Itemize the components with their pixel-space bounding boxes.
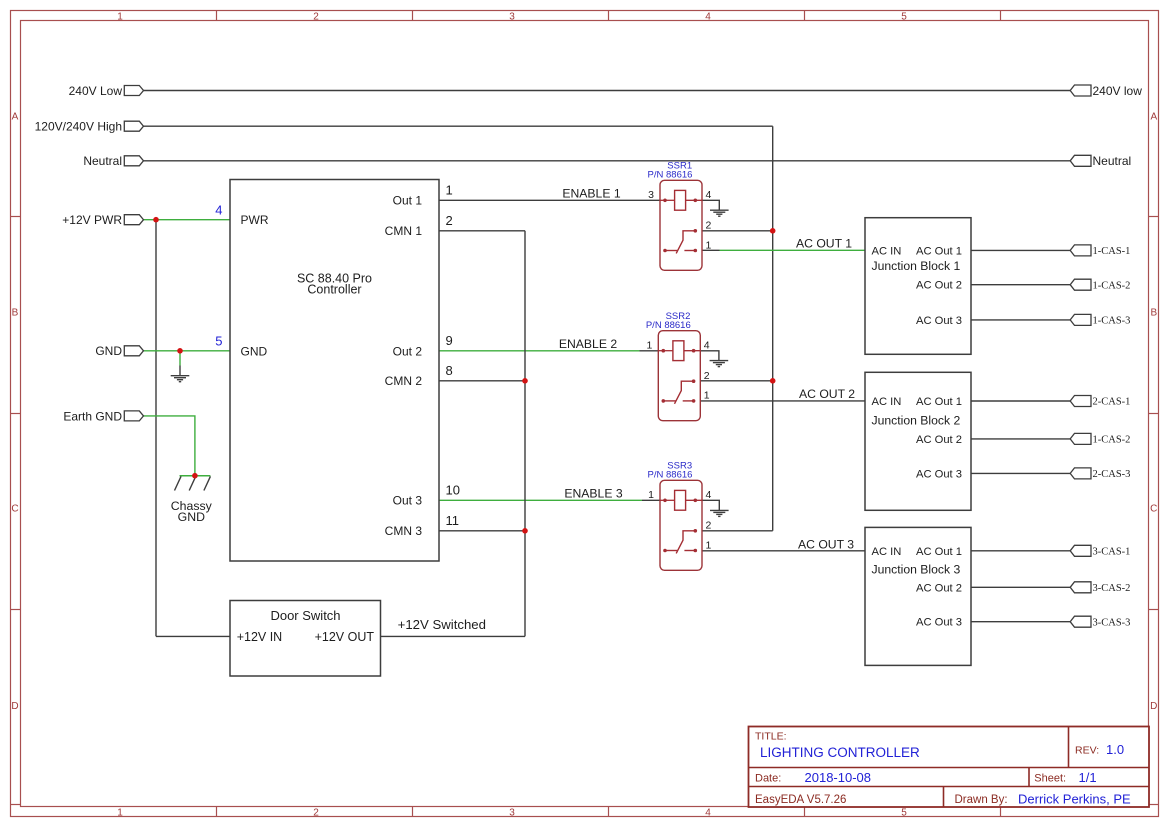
port Neutral (output flag): [1070, 154, 1131, 168]
svg-text:AC Out 1: AC Out 1: [916, 245, 962, 257]
svg-text:2-CAS-1: 2-CAS-1: [1093, 397, 1131, 408]
wire SSR3 pin 2 to high line: [702, 530, 773, 532]
svg-text:Out 1: Out 1: [393, 194, 423, 208]
svg-text:CMN 2: CMN 2: [385, 374, 423, 388]
wire SSR3 pin 4 to ground: [702, 500, 719, 510]
wire AC OUT 2 SSR2 to junction block 2: [700, 400, 865, 402]
svg-text:1: 1: [117, 11, 123, 22]
port 1-CAS-3 (output flag): [1070, 314, 1130, 326]
wire GND stub to ground symbol (dark part): [179, 366, 181, 376]
junction block 2 box: [865, 372, 971, 510]
wire +12V PWR (green) port to controller PWR pin: [144, 219, 231, 221]
svg-text:1: 1: [117, 807, 123, 818]
svg-text:2: 2: [704, 370, 710, 382]
wire CMN 3 from controller: [439, 530, 525, 532]
wire junction block 1 AC Out 2 to port: [971, 284, 1070, 286]
svg-text:1: 1: [706, 539, 712, 551]
svg-text:240V low: 240V low: [1093, 84, 1143, 98]
port Neutral (input flag): [83, 154, 143, 168]
svg-text:AC Out 3: AC Out 3: [916, 315, 962, 327]
wire Neutral net: [144, 160, 1071, 162]
wire SSR2 pin 2 to high line: [700, 380, 772, 382]
port +12V PWR (input flag): [62, 213, 143, 227]
svg-text:AC Out 2: AC Out 2: [916, 280, 962, 292]
svg-text:2018-10-08: 2018-10-08: [805, 770, 872, 785]
wire SSR2 pin 4 to ground: [700, 351, 719, 361]
svg-text:3: 3: [648, 189, 654, 201]
svg-text:1: 1: [706, 239, 712, 251]
port 240V low (output flag): [1070, 84, 1142, 98]
wire 240V Low net (left port to right port): [144, 90, 1071, 92]
svg-text:11: 11: [446, 513, 460, 528]
wire junction block 3 AC Out 1 to port: [971, 550, 1070, 552]
svg-text:EasyEDA V5.7.26: EasyEDA V5.7.26: [755, 794, 846, 806]
svg-text:AC IN: AC IN: [872, 245, 902, 257]
junction block 3 box: [865, 527, 971, 665]
wire SSR1 pin 2 to high line: [702, 230, 773, 232]
svg-text:B: B: [1150, 307, 1157, 318]
ground symbol SSR3 pin4: [710, 510, 729, 516]
svg-text:Out 2: Out 2: [393, 344, 423, 358]
port 240V Low (input flag): [69, 84, 144, 98]
svg-text:Controller: Controller: [307, 283, 361, 297]
wire 120V/240V High net vertical drop to SSR pin 2 column: [772, 126, 774, 531]
svg-text:AC Out 3: AC Out 3: [916, 617, 962, 629]
svg-text:1-CAS-3: 1-CAS-3: [1093, 316, 1131, 327]
wire junction block 1 AC Out 3 to port: [971, 319, 1070, 321]
svg-text:CMN 1: CMN 1: [385, 224, 423, 238]
svg-text:GND: GND: [95, 344, 122, 358]
port 3-CAS-1 (output flag): [1070, 545, 1130, 557]
svg-text:2: 2: [706, 220, 712, 232]
SSR relay SSR3 P/N 88616: [660, 480, 702, 570]
svg-text:1-CAS-2: 1-CAS-2: [1093, 435, 1131, 446]
svg-text:+12V IN: +12V IN: [237, 630, 283, 644]
ground symbol GND net: [171, 376, 190, 382]
svg-text:2: 2: [706, 520, 712, 532]
svg-text:D: D: [11, 701, 18, 712]
svg-text:Junction Block 3: Junction Block 3: [872, 563, 961, 577]
svg-text:4: 4: [215, 202, 222, 217]
svg-text:9: 9: [446, 333, 453, 348]
svg-text:P/N 88616: P/N 88616: [646, 320, 691, 331]
wire AC OUT 1 (green) SSR1 to junction block 1: [720, 249, 866, 251]
wire CMN 2 from controller: [439, 380, 525, 382]
port 1-CAS-1 (output flag): [1070, 245, 1130, 257]
SSR relay SSR2 P/N 88616: [658, 331, 700, 421]
wire +12V vertical feed to door switch: [155, 220, 157, 637]
svg-text:2: 2: [446, 213, 453, 228]
svg-text:CMN 3: CMN 3: [385, 524, 423, 538]
svg-text:4: 4: [704, 340, 710, 352]
svg-text:REV:: REV:: [1075, 745, 1099, 757]
wire SSR2 coil pin lead: [640, 350, 659, 352]
SSR relay SSR1 P/N 88616: [660, 180, 702, 270]
svg-text:3: 3: [509, 807, 515, 818]
svg-text:AC OUT 1: AC OUT 1: [796, 237, 852, 251]
wire ENABLE 1 controller Out 1 to SSR1: [439, 199, 660, 201]
junction at chassis ground: [192, 473, 198, 479]
svg-text:ENABLE 1: ENABLE 1: [562, 186, 620, 200]
wire GND stub to ground symbol (green part): [179, 351, 181, 366]
junction at GND / ground symbol: [177, 348, 183, 354]
svg-text:1-CAS-2: 1-CAS-2: [1093, 280, 1131, 291]
svg-text:8: 8: [446, 363, 453, 378]
svg-text:Drawn By:: Drawn By:: [955, 794, 1008, 806]
wire SSR1 pin 1 lead: [702, 249, 720, 251]
port 2-CAS-3 (output flag): [1070, 468, 1130, 480]
controller U1 SC 88.40 Pro box: [230, 180, 439, 562]
svg-text:AC IN: AC IN: [872, 546, 902, 558]
svg-text:A: A: [1150, 112, 1157, 123]
svg-text:5: 5: [901, 807, 907, 818]
svg-text:ENABLE 2: ENABLE 2: [559, 337, 617, 351]
wire SSR3 coil pin lead: [642, 499, 660, 501]
svg-text:1: 1: [646, 340, 652, 352]
svg-text:3-CAS-3: 3-CAS-3: [1093, 617, 1131, 628]
svg-text:+12V OUT: +12V OUT: [315, 630, 375, 644]
svg-text:+12V PWR: +12V PWR: [62, 213, 122, 227]
svg-text:Sheet:: Sheet:: [1034, 773, 1066, 785]
controller name SC 88.40 Pro Controller: [297, 272, 372, 297]
port 2-CAS-1 (output flag): [1070, 396, 1130, 408]
junction block 1 box: [865, 218, 971, 355]
svg-text:Junction Block 2: Junction Block 2: [872, 413, 961, 427]
svg-text:ENABLE 3: ENABLE 3: [564, 486, 622, 500]
svg-text:3-CAS-1: 3-CAS-1: [1093, 547, 1131, 558]
chassis ground label Chassy GND: [171, 499, 213, 524]
svg-text:GND: GND: [241, 344, 268, 358]
port 120V/240V High (input flag): [35, 120, 144, 134]
junction CMN2 on +12V switched bus: [522, 378, 528, 384]
svg-text:LIGHTING CONTROLLER: LIGHTING CONTROLLER: [760, 745, 920, 760]
svg-text:Out 3: Out 3: [393, 494, 423, 508]
svg-text:PWR: PWR: [241, 213, 269, 227]
port Earth GND (input flag): [63, 409, 143, 423]
wire junction block 2 AC Out 1 to port: [971, 400, 1070, 402]
wire junction block 2 AC Out 3 to port: [971, 472, 1070, 474]
svg-text:A: A: [12, 112, 19, 123]
svg-text:Neutral: Neutral: [1093, 154, 1132, 168]
port 3-CAS-3 (output flag): [1070, 616, 1130, 628]
svg-text:AC OUT 3: AC OUT 3: [798, 537, 854, 551]
wire GND (green) port to controller GND pin: [144, 350, 231, 352]
svg-text:TITLE:: TITLE:: [755, 730, 787, 742]
svg-text:4: 4: [705, 807, 711, 818]
svg-text:AC OUT 2: AC OUT 2: [799, 387, 855, 401]
junction SSR2 pin2 on high line: [770, 378, 776, 384]
svg-text:5: 5: [215, 333, 222, 348]
svg-text:AC Out 2: AC Out 2: [916, 582, 962, 594]
wire Earth GND (green) to chassis ground: [144, 416, 195, 476]
wire +12V OUT from door switch: [381, 635, 526, 637]
junction SSR1 pin2 on high line: [770, 228, 776, 234]
svg-text:AC IN: AC IN: [872, 396, 902, 408]
wire junction block 3 AC Out 2 to port: [971, 586, 1070, 588]
wire AC OUT 3 SSR3 to junction block 3: [702, 550, 865, 552]
wire ENABLE 3 (green) controller Out 3 to SSR3: [439, 499, 642, 501]
svg-text:1/1: 1/1: [1079, 770, 1097, 785]
wire 120V/240V High net horizontal: [144, 125, 773, 127]
wire SSR1 pin 4 to ground: [702, 200, 719, 210]
svg-text:1-CAS-1: 1-CAS-1: [1093, 246, 1131, 257]
svg-text:1: 1: [648, 489, 654, 501]
svg-text:240V Low: 240V Low: [69, 84, 123, 98]
svg-text:2-CAS-3: 2-CAS-3: [1093, 469, 1131, 480]
svg-text:1: 1: [704, 390, 710, 402]
svg-text:C: C: [11, 503, 18, 514]
svg-text:4: 4: [706, 489, 712, 501]
port GND (input flag): [95, 344, 143, 358]
port 1-CAS-2 (output flag): [1070, 279, 1130, 291]
svg-text:10: 10: [446, 482, 460, 497]
ground symbol SSR2 pin4: [710, 361, 729, 367]
svg-text:Earth GND: Earth GND: [63, 409, 122, 423]
wire +12V switched vertical (CMN bus): [524, 231, 526, 637]
wire junction block 1 AC Out 1 to port: [971, 249, 1070, 251]
wire +12V IN into door switch: [156, 635, 230, 637]
ground symbol SSR1 pin4: [710, 210, 729, 216]
svg-text:4: 4: [706, 189, 712, 201]
svg-text:1.0: 1.0: [1106, 742, 1124, 757]
svg-text:D: D: [1150, 701, 1157, 712]
svg-text:Derrick Perkins, PE: Derrick Perkins, PE: [1018, 792, 1131, 807]
door switch box: [230, 601, 381, 677]
svg-text:Door Switch: Door Switch: [270, 608, 340, 623]
svg-text:1: 1: [446, 182, 453, 197]
svg-text:AC Out 1: AC Out 1: [916, 546, 962, 558]
svg-text:Junction Block 1: Junction Block 1: [872, 259, 961, 273]
wire junction block 3 AC Out 3 to port: [971, 621, 1070, 623]
svg-text:AC Out 2: AC Out 2: [916, 434, 962, 446]
wire ENABLE 2 (green) controller Out 2 to SSR2: [439, 350, 640, 352]
junction CMN3 on +12V switched bus: [522, 528, 528, 534]
svg-text:B: B: [12, 307, 19, 318]
wire CMN 1 from controller to +12V switched vertical: [439, 230, 525, 232]
wire junction block 2 AC Out 2 to port: [971, 438, 1070, 440]
svg-text:120V/240V High: 120V/240V High: [35, 120, 122, 134]
port 1-CAS-2 (output flag): [1070, 433, 1130, 445]
svg-text:5: 5: [901, 11, 907, 22]
svg-text:P/N 88616: P/N 88616: [648, 170, 693, 181]
svg-text:Neutral: Neutral: [83, 154, 122, 168]
svg-text:2: 2: [313, 807, 319, 818]
title block: [749, 727, 1150, 808]
svg-text:3-CAS-2: 3-CAS-2: [1093, 583, 1131, 594]
svg-text:4: 4: [705, 11, 711, 22]
svg-text:P/N 88616: P/N 88616: [648, 470, 693, 481]
svg-text:2: 2: [313, 11, 319, 22]
chassis ground symbol: [175, 476, 211, 491]
svg-text:GND: GND: [178, 510, 205, 524]
port 3-CAS-2 (output flag): [1070, 582, 1130, 594]
junction at +12V PWR / vertical: [153, 217, 159, 223]
svg-text:+12V Switched: +12V Switched: [398, 617, 486, 632]
svg-text:AC Out 3: AC Out 3: [916, 468, 962, 480]
svg-text:Date:: Date:: [755, 773, 781, 785]
svg-text:AC Out 1: AC Out 1: [916, 396, 962, 408]
svg-text:C: C: [1150, 503, 1157, 514]
svg-text:3: 3: [509, 11, 515, 22]
